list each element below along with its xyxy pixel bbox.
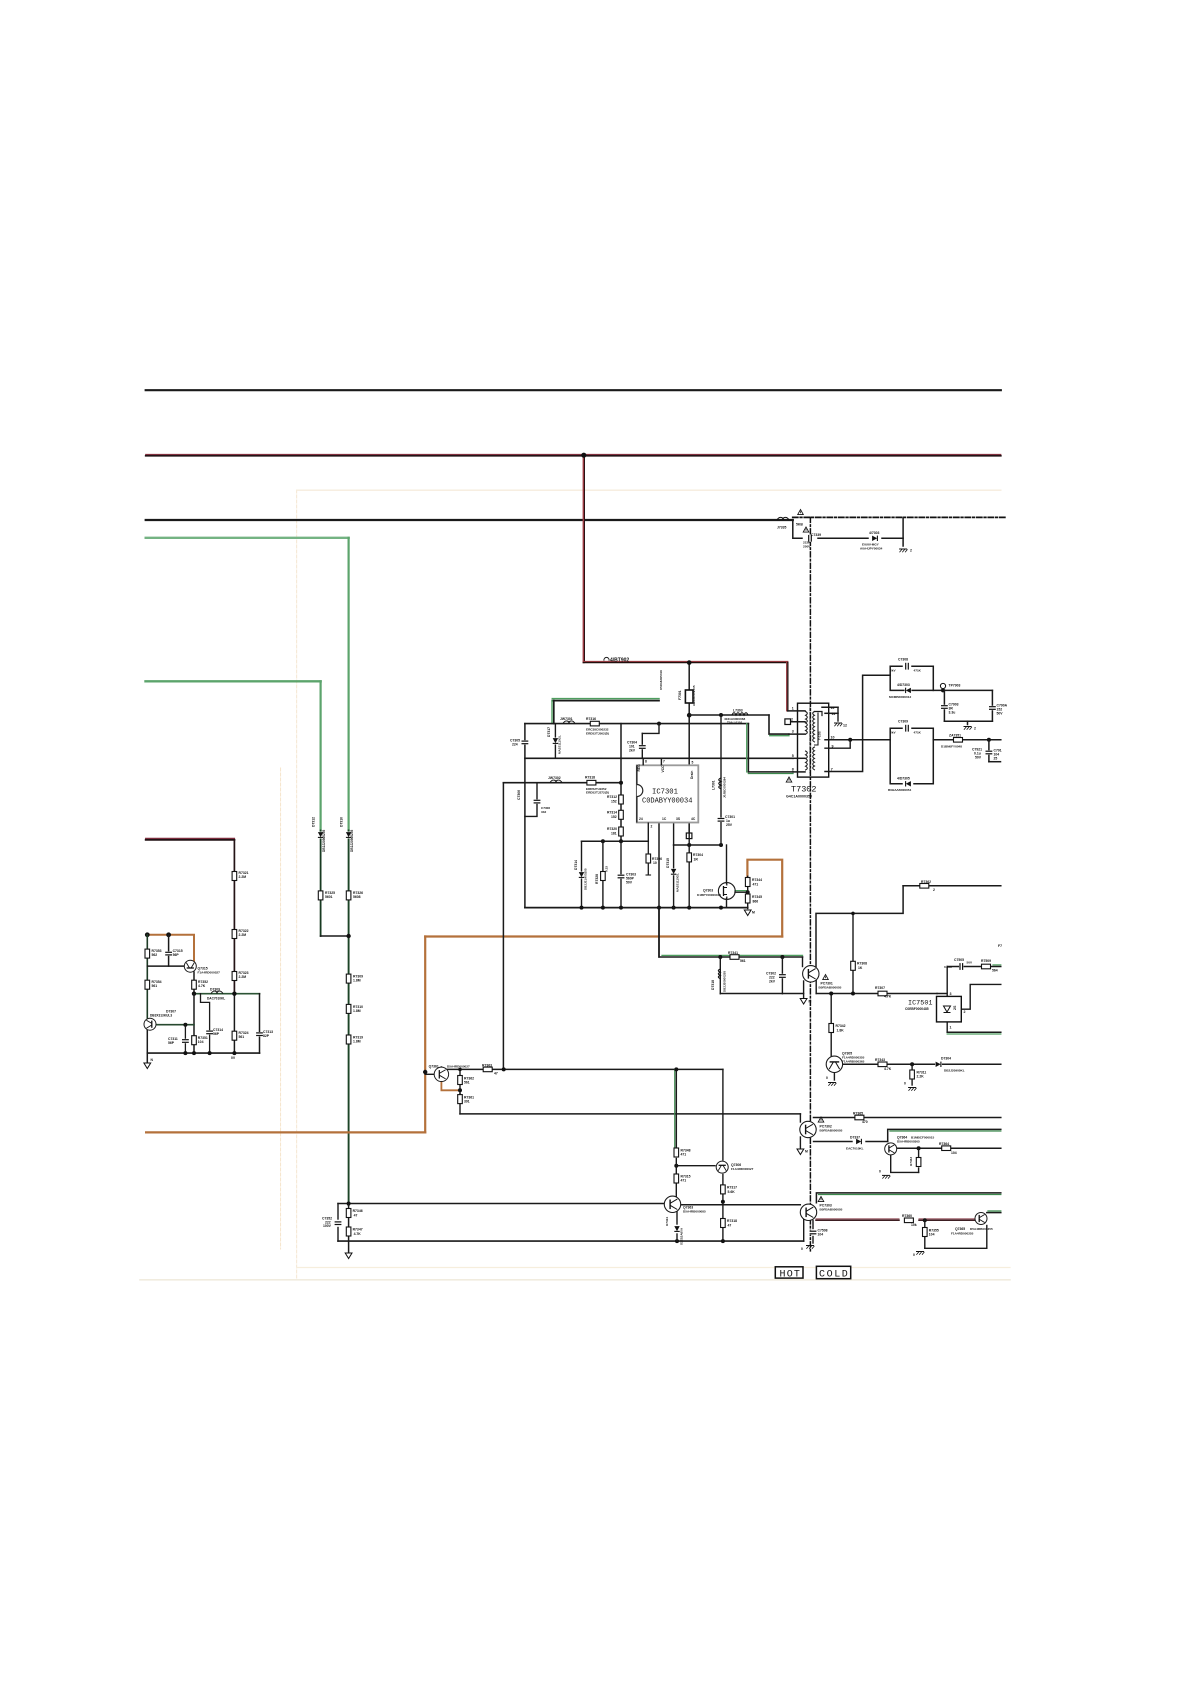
svg-text:R7344: R7344 <box>752 878 762 882</box>
svg-text:5KB: 5KB <box>796 523 803 527</box>
resistor R7310 <box>346 1004 351 1013</box>
resistor R7355 <box>923 1228 928 1237</box>
resistor R7307 <box>878 991 887 996</box>
svg-text:2: 2 <box>910 549 912 553</box>
svg-text:JW7302: JW7302 <box>548 776 561 780</box>
svg-text:Q7303: Q7303 <box>703 889 713 893</box>
svg-text:181: 181 <box>611 832 617 836</box>
wire bottom rail y1241 <box>338 1240 804 1242</box>
resistor R7347 <box>346 1227 351 1236</box>
svg-text:C7339: C7339 <box>811 533 821 537</box>
svg-text:471K: 471K <box>914 669 922 673</box>
svg-text:B0HAAB000054: B0HAAB000054 <box>888 788 911 792</box>
wire orange bottom to left <box>146 1131 425 1133</box>
wire Q7361 base tap on orange <box>425 1073 434 1075</box>
resistor R7316 <box>590 721 599 726</box>
wire green row (D7309) <box>194 993 260 995</box>
MOSFET Q7303 <box>718 883 735 900</box>
diode D7317 <box>552 738 558 745</box>
svg-text:471K: 471K <box>914 731 922 735</box>
resistor R7346 <box>346 1209 351 1218</box>
wire Q7363 to PC7303 row <box>681 1204 801 1206</box>
svg-text:4/BT902: 4/BT902 <box>610 658 629 664</box>
svg-text:F1A4RD000027: F1A4RD000027 <box>198 971 221 975</box>
svg-text:M: M <box>809 1000 812 1004</box>
resistor R7362b <box>458 1076 463 1085</box>
svg-text:B0FBAB000005: B0FBAB000005 <box>820 1208 843 1212</box>
green bus line 2 <box>146 680 321 682</box>
pin2 stub + pad <box>791 721 806 723</box>
svg-text:C7308: C7308 <box>898 658 908 662</box>
junction on AC bus <box>581 453 586 458</box>
svg-text:561: 561 <box>740 959 746 963</box>
wire R7355 column <box>924 1220 926 1226</box>
wire to T pin8 column green pair <box>747 724 749 772</box>
svg-text:152: 152 <box>611 800 617 804</box>
wire PC7302 emitter ground <box>799 1137 801 1148</box>
svg-text:50V: 50V <box>626 881 633 885</box>
capacitor C7315 <box>165 951 172 955</box>
wire IC7501 pin1 green out <box>946 1022 948 1032</box>
wire row y782 <box>503 782 621 784</box>
svg-text:104: 104 <box>929 1233 935 1237</box>
transistor Q7314 <box>144 1018 156 1030</box>
ground N left cluster <box>144 1063 151 1069</box>
svg-text:4.7K: 4.7K <box>884 1067 892 1071</box>
capacitor C7302 <box>779 974 786 978</box>
warning triangle PC7303 <box>818 1197 824 1202</box>
wire L7303 row y715 <box>689 714 769 716</box>
svg-text:M: M <box>805 1150 808 1154</box>
svg-text:R7347: R7347 <box>353 1228 363 1232</box>
wire Q7364 base row y1148 <box>896 1147 1000 1149</box>
core bars <box>809 708 811 773</box>
wire PC7303 bottom pin to C7508 <box>812 1221 814 1229</box>
wire relay loop <box>793 520 802 538</box>
diode D7337 <box>856 1139 863 1145</box>
svg-text:2kV: 2kV <box>629 749 636 753</box>
ground Q7364 <box>882 1175 890 1178</box>
wire R7342 column to Q7305 <box>830 994 832 1058</box>
svg-text:R7346: R7346 <box>353 1209 363 1213</box>
faint frame guide horizontal top <box>297 489 1001 491</box>
jumper J7335 on mid bus <box>777 510 912 553</box>
svg-text:2S: 2S <box>953 1005 957 1010</box>
resistor R7317 <box>721 1185 726 1194</box>
svg-text:R7318: R7318 <box>585 776 595 780</box>
warning triangle T7302 <box>786 777 792 782</box>
pin7 wire riser <box>825 675 890 771</box>
svg-text:TP7903: TP7903 <box>949 684 961 688</box>
svg-text:K1BPY00000010: K1BPY00000010 <box>697 893 721 897</box>
svg-text:JW7301: JW7301 <box>560 717 573 721</box>
svg-text:G4C1A0000355: G4C1A0000355 <box>786 795 812 799</box>
wire Q7365 collector green <box>987 1212 1001 1214</box>
svg-text:C7505: C7505 <box>954 958 964 962</box>
svg-text:5: 5 <box>692 761 694 765</box>
wire orange cluster top <box>147 935 194 961</box>
wire green vertical A (from green bus 2) <box>320 681 322 830</box>
svg-text:R7341: R7341 <box>728 951 738 955</box>
svg-text:D7312: D7312 <box>312 817 316 827</box>
svg-text:DB2J20900KL: DB2J20900KL <box>944 1069 965 1073</box>
svg-text:8: 8 <box>792 768 794 772</box>
capacitor C7308 <box>905 663 909 670</box>
wire C7314 branch <box>201 994 210 1053</box>
resistor R7354 <box>145 980 150 989</box>
svg-text:D7317: D7317 <box>547 727 551 737</box>
svg-text:25V: 25V <box>726 823 733 827</box>
svg-text:1C: 1C <box>662 817 667 821</box>
pin8 stub <box>793 771 805 773</box>
svg-text:104: 104 <box>818 1233 824 1237</box>
svg-text:DB2J21A00255: DB2J21A00255 <box>584 868 588 890</box>
inductor L7311 <box>718 969 720 979</box>
svg-text:1K: 1K <box>858 966 863 970</box>
svg-text:2: 2 <box>974 727 976 731</box>
svg-text:2.2M: 2.2M <box>239 875 247 879</box>
resistor R7348 sense top <box>674 1148 679 1157</box>
svg-text:50V: 50V <box>975 756 982 760</box>
svg-text:D7304: D7304 <box>941 1057 951 1061</box>
svg-text:R7318: R7318 <box>727 1219 737 1223</box>
svg-text:2.2M: 2.2M <box>239 975 247 979</box>
inductor L7303 <box>732 713 748 715</box>
diode D7310 <box>346 832 352 839</box>
svg-text:F7301: F7301 <box>678 690 682 700</box>
wire red vertical from AC bus <box>582 455 584 662</box>
ground snubber1 <box>964 727 972 730</box>
svg-text:10: 10 <box>831 736 835 740</box>
svg-text:D7318: D7318 <box>711 980 715 990</box>
svg-text:T7302: T7302 <box>791 785 817 795</box>
svg-text:1.8K: 1.8K <box>837 1029 845 1033</box>
resistor R7341 <box>730 955 739 960</box>
wire Q7305 emitter <box>833 1072 835 1080</box>
svg-text:A0A4JPY00034: A0A4JPY00034 <box>860 546 883 550</box>
svg-text:10k: 10k <box>911 1223 917 1227</box>
photocoupler IC7501 <box>905 992 966 1030</box>
svg-text:332: 332 <box>541 810 546 814</box>
resistor R7509 <box>982 964 991 969</box>
capacitor C7304 <box>639 745 646 749</box>
svg-text:M: M <box>752 911 755 915</box>
wire Q7315 emitter down <box>193 972 195 994</box>
capacitor C7339 <box>808 535 812 542</box>
svg-text:R7363: R7363 <box>909 1157 913 1166</box>
svg-text:D5A4RB000365: D5A4RB000365 <box>897 1140 920 1144</box>
capacitor C7305 <box>521 740 528 744</box>
svg-text:0V: 0V <box>231 1056 236 1060</box>
svg-text:DAC7010KL: DAC7010KL <box>207 997 225 1001</box>
diode D7312 <box>318 832 324 839</box>
svg-text:47: 47 <box>354 1214 358 1218</box>
ground M primary <box>744 910 751 916</box>
svg-text:2.2M: 2.2M <box>239 933 247 937</box>
svg-text:DB2J20900255: DB2J20900255 <box>350 829 354 852</box>
wire drain top rail y845 <box>674 844 721 846</box>
wire green supply row y1129.4 <box>888 1129 1001 1141</box>
capacitor C7306 <box>533 799 540 803</box>
wire column x503 down <box>502 783 504 1070</box>
resistor R7328 <box>601 872 606 881</box>
svg-text:ERD52TJ562(D): ERD52TJ562(D) <box>586 731 609 735</box>
svg-text:2.2K: 2.2K <box>917 1075 925 1079</box>
wire C7315 stub <box>168 935 170 966</box>
wire R7362/R7361 column <box>459 1069 461 1093</box>
svg-text:EAC7010KL: EAC7010KL <box>846 1147 864 1151</box>
resistor R7319 <box>346 1035 351 1044</box>
svg-text:25: 25 <box>994 757 998 761</box>
svg-text:F-1SB: F-1SB <box>818 730 822 740</box>
svg-text:3.3u: 3.3u <box>949 711 956 715</box>
resistor R7304 <box>687 853 692 862</box>
capacitor C7313 <box>256 1032 263 1036</box>
svg-text:471: 471 <box>681 1179 687 1183</box>
wire orange vertical left <box>424 937 426 1133</box>
svg-text:561: 561 <box>464 1081 470 1085</box>
svg-text:R7509: R7509 <box>981 959 991 963</box>
svg-text:DB2J20900255: DB2J20900255 <box>322 829 326 852</box>
wire D7314 column <box>581 841 583 907</box>
capacitor C7301 <box>717 818 724 822</box>
wire base row Q7306 <box>676 1165 715 1167</box>
svg-text:DB2J20900255: DB2J20900255 <box>723 971 727 992</box>
svg-text:224: 224 <box>512 743 518 747</box>
bus line top <box>146 389 1001 391</box>
wire PC7301 emitter ground <box>803 981 805 999</box>
svg-text:2: 2 <box>791 718 793 722</box>
resistor R7309 <box>346 974 351 983</box>
capacitor C7904 <box>989 706 996 710</box>
svg-text:B0FBAB000005: B0FBAB000005 <box>819 986 842 990</box>
svg-text:104: 104 <box>198 1040 204 1044</box>
svg-text:2: 2 <box>933 888 935 892</box>
isolation dash-dot vertical HOT/COLD <box>809 517 811 1252</box>
wire right branch down to C7313 <box>259 994 261 1053</box>
wire R7328 column <box>602 841 604 907</box>
wire red R-chain vertical <box>233 840 235 994</box>
faint frame guide vertical <box>296 490 298 1280</box>
svg-text:0: 0 <box>913 1253 915 1257</box>
svg-text:9: 9 <box>832 745 834 749</box>
svg-text:D5A4RB000085: D5A4RB000085 <box>683 1210 706 1214</box>
svg-text:R7328: R7328 <box>595 874 599 884</box>
wire PC7301 collector up <box>816 886 903 967</box>
svg-text:T0A L0101: T0A L0101 <box>727 720 743 724</box>
pin5 stub <box>793 757 805 759</box>
wire gate stub green <box>735 891 748 893</box>
svg-text:56P: 56P <box>173 953 180 957</box>
wire D7317 column <box>554 724 556 759</box>
resistor R7325 <box>318 891 323 900</box>
svg-text:ERD52TJ272(D): ERD52TJ272(D) <box>586 791 609 795</box>
svg-text:5608: 5608 <box>353 895 361 899</box>
svg-text:J0JBC0000284: J0JBC0000284 <box>723 777 727 798</box>
ground R7311 <box>908 1088 916 1091</box>
svg-text:47: 47 <box>728 1224 732 1228</box>
svg-text:D7314: D7314 <box>574 860 578 870</box>
resistor R7343 <box>878 1062 887 1067</box>
ground at pin11/12 <box>834 723 842 726</box>
svg-text:5.6K: 5.6K <box>728 1190 736 1194</box>
secondary winding <box>813 712 815 742</box>
svg-text:561: 561 <box>152 984 158 988</box>
svg-text:0: 0 <box>904 1081 906 1085</box>
svg-text:0: 0 <box>801 1247 803 1251</box>
svg-text:MA2S1110GL: MA2S1110GL <box>558 735 562 754</box>
pin9 wire <box>825 740 850 748</box>
svg-text:1: 1 <box>950 1026 952 1030</box>
svg-text:R7320: R7320 <box>607 827 617 831</box>
wire base row Q7315 <box>147 965 184 967</box>
transistor Q7365 <box>975 1213 987 1225</box>
svg-text:J7335: J7335 <box>777 526 787 530</box>
pin12/11 right <box>822 706 838 708</box>
resistor R7318 <box>587 780 596 785</box>
ground Q7305 <box>828 1083 836 1086</box>
svg-text:82P: 82P <box>263 1034 270 1038</box>
ground C7508 <box>806 1246 814 1249</box>
warning triangle PC7302 <box>818 1117 824 1122</box>
wire C7306 branch <box>525 783 537 817</box>
svg-text:DB3X313KUL3: DB3X313KUL3 <box>150 1014 172 1018</box>
svg-text:D7337: D7337 <box>850 1136 860 1140</box>
resistor R7318 <box>721 1219 726 1228</box>
resistor R7352 <box>192 980 197 989</box>
resistor R7314 <box>619 810 624 819</box>
wire bottom of loop y994 <box>720 993 803 995</box>
svg-text:F1A4RD000255: F1A4RD000255 <box>951 1231 974 1235</box>
svg-text:50V: 50V <box>997 712 1004 716</box>
resistor R7353 <box>145 949 150 958</box>
svg-text:56P: 56P <box>168 1041 175 1045</box>
svg-text:11: 11 <box>832 712 836 716</box>
resistor R7320 <box>619 827 624 836</box>
svg-text:D5A4RB000355: D5A4RB000355 <box>970 1227 993 1231</box>
wire bottom box left edge <box>337 1204 339 1220</box>
svg-text:VCC: VCC <box>661 765 665 773</box>
faint frame guide vertical 2 <box>280 768 282 1249</box>
svg-text:R7307: R7307 <box>875 986 885 990</box>
wire orange loop mid <box>425 935 782 937</box>
svg-text:4.7K: 4.7K <box>198 984 206 988</box>
svg-text:1.8M: 1.8M <box>353 1040 361 1044</box>
diode D7303 <box>905 687 912 693</box>
svg-text:Q7361: Q7361 <box>429 1064 439 1068</box>
pin1 stub <box>788 710 805 712</box>
wire green sense column x676.3 <box>675 1069 677 1147</box>
svg-text:391: 391 <box>464 1100 470 1104</box>
svg-text:471: 471 <box>753 883 759 887</box>
svg-text:F1A4RD000027: F1A4RD000027 <box>731 1167 754 1171</box>
svg-text:F7: F7 <box>998 944 1002 948</box>
wire Q7363 emitter <box>676 1212 678 1225</box>
svg-text:12: 12 <box>843 724 847 728</box>
primary winding <box>806 712 808 735</box>
svg-text:REG: REG <box>637 764 641 772</box>
wire Q7364 emitter rail <box>891 1155 919 1173</box>
svg-text:MCMBD000012: MCMBD000012 <box>889 695 911 699</box>
svg-text:B0FBAB000005: B0FBAB000005 <box>820 1129 843 1133</box>
diode D7336 <box>872 535 879 541</box>
svg-text:R7360: R7360 <box>902 1214 912 1218</box>
transistor Q7315 <box>184 960 196 972</box>
svg-text:250V: 250V <box>803 544 811 548</box>
svg-text:C0EBF0000485: C0EBF0000485 <box>905 1007 929 1011</box>
resistor R7344 <box>745 878 750 887</box>
svg-text:D7309: D7309 <box>210 988 220 992</box>
svg-text:L7301: L7301 <box>712 780 716 790</box>
wire Q7305 row y1064 <box>831 1063 1001 1065</box>
svg-text:R7316: R7316 <box>586 717 596 721</box>
capacitor C7352 <box>334 1221 341 1225</box>
fusible resistor ZA7351 <box>954 738 963 743</box>
wire PC7302 out to D7337 <box>814 1141 853 1143</box>
wire opto out row y992 <box>816 993 937 995</box>
resistor R7323 2.2M <box>232 972 237 981</box>
svg-text:D7324: D7324 <box>665 1217 669 1226</box>
svg-text:10: 10 <box>653 861 657 865</box>
resistor R7311 <box>910 1070 915 1079</box>
ground M PC7301 <box>800 999 807 1005</box>
test point TP7903 <box>940 683 945 688</box>
capacitor C7314 <box>206 1030 213 1034</box>
svg-text:5601: 5601 <box>325 895 333 899</box>
svg-text:S1ZB2A60A: S1ZB2A60A <box>680 1227 684 1245</box>
diode D7305 <box>905 781 912 787</box>
svg-text:0: 0 <box>826 1076 828 1080</box>
fuse F7301 <box>685 690 693 703</box>
resistor R7321 2.2M <box>232 872 237 881</box>
svg-text:R7312: R7312 <box>607 795 617 799</box>
svg-text:471: 471 <box>681 1153 687 1157</box>
wire opto drive row y1114 <box>460 1113 800 1115</box>
svg-text:2kV: 2kV <box>890 669 896 673</box>
resistor R7308 <box>851 961 856 970</box>
wire green vertical B (from green bus 1) <box>348 538 350 831</box>
wire IC bottom row y841 <box>582 840 649 842</box>
wire Q7314 collector row <box>156 1024 194 1026</box>
svg-text:R7317: R7317 <box>727 1186 737 1190</box>
wire bottom box top edge / base row <box>338 1203 665 1205</box>
faint frame guide horizontal bottom <box>297 1267 1010 1269</box>
wire maroon row y1220.3 <box>816 1219 899 1221</box>
wire green B inside box <box>348 1205 350 1252</box>
transistor Q7363 <box>664 1196 680 1212</box>
wire L7311 column <box>719 957 721 994</box>
transistor Q7305 <box>826 1056 842 1072</box>
svg-text:C7306: C7306 <box>517 790 521 800</box>
svg-text:24: 24 <box>639 817 643 821</box>
svg-text:COLD: COLD <box>819 1270 849 1281</box>
svg-text:12: 12 <box>831 706 835 710</box>
wire red vertical to T7302 pin1 <box>787 663 789 711</box>
output row through ZA7351 <box>933 739 1001 741</box>
capacitor C7921 <box>985 750 992 754</box>
wire orange right riser <box>747 860 782 937</box>
resistor R7361 <box>458 1095 463 1104</box>
resistor R7342 <box>829 1024 834 1033</box>
optocoupler PC7302 <box>800 1121 816 1137</box>
svg-text:8: 8 <box>645 760 647 764</box>
svg-text:564: 564 <box>992 969 998 973</box>
content <box>140 390 1010 1280</box>
svg-text:562: 562 <box>152 953 158 957</box>
ground relay <box>899 549 907 552</box>
wire Vstart row y724 <box>525 723 749 725</box>
capacitor C7303 <box>617 874 624 878</box>
